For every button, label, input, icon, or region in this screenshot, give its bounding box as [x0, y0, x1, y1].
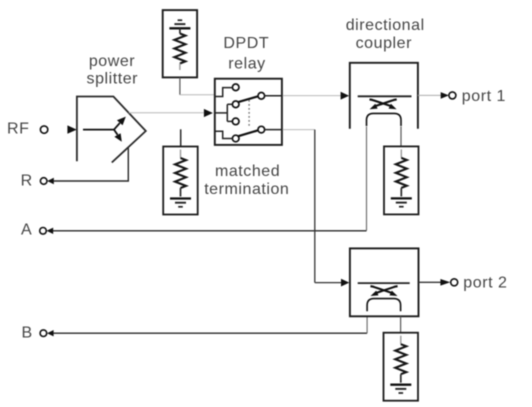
svg-text:port 2: port 2 — [463, 274, 507, 291]
svg-text:B: B — [22, 324, 33, 341]
terminal port 1 circle — [449, 92, 456, 99]
svg-text:directional: directional — [346, 17, 425, 34]
wire stub above T2 — [180, 129, 182, 146]
matched termination T1 (top) box — [163, 10, 197, 77]
svg-text:port 1: port 1 — [462, 88, 506, 105]
R output arrowhead — [47, 178, 54, 184]
svg-text:relay: relay — [228, 55, 265, 72]
svg-text:RF: RF — [7, 121, 29, 138]
terminal B circle — [40, 330, 47, 337]
wire coupler 2 to termination T4 — [400, 316, 402, 332]
wire coupler 1 output — [418, 94, 441, 96]
wire relay to coupler 1 (faint) — [283, 95, 341, 97]
wire coupler 1 coupled leg down to A line — [366, 127, 368, 231]
svg-text:termination: termination — [204, 181, 289, 198]
relay input wire to poles — [215, 104, 233, 121]
power splitter body — [77, 97, 146, 163]
B output arrowhead — [47, 330, 54, 336]
wire splitter output to relay (faint) — [129, 112, 204, 114]
wire coupler 2 coupled leg down to B line — [366, 316, 368, 333]
terminal RF circle — [40, 126, 47, 133]
coupler 1 through line — [358, 95, 412, 97]
wire coupler 1 to termination T3 — [400, 127, 402, 147]
relay pole circle C3 — [232, 118, 239, 125]
wire relay to coupler 2 — [283, 130, 341, 283]
svg-text:matched: matched — [215, 163, 280, 180]
relay pole circle C2 — [232, 101, 239, 108]
coupler 1 coupling X arrows — [370, 99, 397, 109]
wire coupler 2 output — [419, 281, 441, 283]
svg-text:coupler: coupler — [356, 35, 412, 52]
T1 ground (inverted, at top) — [169, 20, 190, 28]
wire A line to coupler 1 coupled port — [53, 230, 367, 232]
termination T4 (below coupler 2) — [384, 333, 419, 401]
relay output circle TR — [258, 93, 265, 100]
coupler 2 coupled line arc — [367, 299, 401, 312]
relay mechanical link (dotted) — [248, 100, 250, 128]
svg-text:R: R — [21, 172, 33, 189]
coupler 1 input arrowhead — [341, 92, 350, 100]
RF input arrowhead — [67, 125, 76, 133]
relay output circle BR — [258, 126, 265, 133]
terminal A circle — [40, 228, 47, 235]
power splitter split arrow up — [114, 117, 126, 130]
wire R line — [54, 147, 129, 181]
termination T3 (below coupler 1) — [384, 146, 419, 214]
relay input arrowhead — [204, 109, 213, 117]
directional coupler 2 box — [350, 248, 419, 316]
svg-text:splitter: splitter — [87, 71, 139, 88]
svg-text:power: power — [89, 53, 135, 70]
coupler 2 coupling X arrows — [370, 286, 397, 296]
relay switch arm 2 — [238, 130, 258, 136]
wire TR to right wall — [265, 95, 282, 97]
port 1 arrowhead — [441, 92, 449, 99]
relay switch arm 1 — [238, 96, 258, 102]
wire B line to coupler 2 coupled port — [53, 332, 367, 334]
port 2 arrowhead — [440, 279, 450, 286]
relay contact circle C4 (bottom left) — [232, 135, 239, 142]
wire BR to right wall — [265, 129, 282, 131]
svg-text:A: A — [21, 221, 32, 238]
directional coupler 1 box (open bottom) — [350, 63, 418, 129]
T1 resistor — [174, 28, 185, 70]
coupler 1 coupled line arc — [367, 113, 402, 126]
termination T2 box+resistor+ground — [163, 147, 198, 215]
power splitter internal input line — [83, 129, 114, 131]
coupler 2 through line — [358, 282, 410, 284]
terminal port 2 circle — [451, 279, 458, 286]
svg-text:DPDT: DPDT — [223, 35, 269, 52]
DPDT relay box — [215, 79, 282, 145]
wire C1 to left wall step — [215, 88, 233, 97]
wire C4 to left wall step — [215, 131, 233, 138]
terminal R circle — [40, 178, 47, 185]
relay contact circle C1 (top left) — [232, 84, 239, 91]
power splitter split arrow down — [114, 129, 122, 141]
coupler 2 input arrowhead — [341, 279, 349, 287]
wire T1 to relay — [180, 77, 214, 94]
A output arrowhead — [47, 228, 54, 234]
